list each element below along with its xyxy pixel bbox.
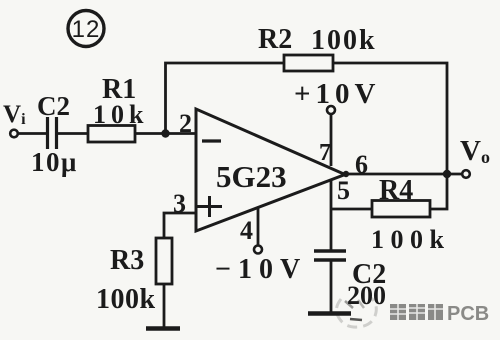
wire R2 right down to output bbox=[333, 63, 447, 174]
node output/R2/R4 junction bbox=[443, 170, 451, 178]
ground under C2 bbox=[308, 311, 351, 316]
watermark logo bbox=[336, 298, 376, 327]
svg-text:PCB: PCB bbox=[447, 303, 489, 325]
resistor R2 bbox=[284, 55, 333, 71]
wire R3 to ground bbox=[163, 284, 166, 327]
wire pin 7 bbox=[330, 114, 333, 166]
minus sign inverting input bbox=[202, 139, 221, 142]
svg-text:R3: R3 bbox=[110, 245, 144, 276]
svg-text:R4: R4 bbox=[379, 175, 413, 206]
svg-text:12: 12 bbox=[72, 16, 101, 43]
watermark text bbox=[390, 303, 489, 325]
wire C2 to R1 bbox=[58, 132, 88, 135]
wire C2 to ground bbox=[330, 260, 333, 312]
wire pin 3 to R3 bbox=[164, 213, 196, 238]
svg-text:2: 2 bbox=[179, 109, 192, 138]
svg-text:10k: 10k bbox=[93, 100, 148, 129]
capacitor C2 (200) bbox=[314, 251, 346, 260]
svg-text:C2: C2 bbox=[37, 91, 70, 121]
output terminal Vo bbox=[462, 170, 470, 178]
output wire pin 6 bbox=[345, 173, 462, 176]
svg-text:200: 200 bbox=[347, 281, 386, 310]
svg-text:5: 5 bbox=[337, 176, 350, 205]
resistor R1 bbox=[88, 126, 135, 143]
svg-text:100k: 100k bbox=[371, 225, 450, 254]
node junction R1/R2 bbox=[161, 129, 169, 137]
wire pin 4 bbox=[257, 208, 260, 246]
figure number 12 bbox=[68, 11, 104, 47]
power -10V terminal bbox=[254, 246, 262, 254]
wire Vi to C2 bbox=[18, 132, 46, 135]
svg-text:5G23: 5G23 bbox=[216, 159, 287, 194]
svg-text:+10V: +10V bbox=[294, 78, 380, 110]
wire pin 5 down bbox=[330, 179, 333, 250]
wire junction up to R2 bbox=[166, 63, 285, 134]
wire pin5 node to R4 bbox=[331, 208, 372, 211]
resistor R4 bbox=[372, 201, 430, 218]
plus sign non-inverting input bbox=[197, 196, 222, 217]
svg-text:4: 4 bbox=[240, 216, 253, 245]
svg-text:100k: 100k bbox=[311, 25, 377, 56]
svg-text:−10V: −10V bbox=[215, 254, 307, 285]
capacitor C2 (input) bbox=[48, 117, 57, 149]
svg-text:10μ: 10μ bbox=[31, 147, 78, 177]
wire R1 to op-amp pin2 bbox=[135, 132, 197, 135]
wire R4 right up to output bbox=[430, 174, 447, 209]
svg-text:R2: R2 bbox=[258, 24, 292, 55]
svg-text:7: 7 bbox=[319, 140, 331, 166]
power +10V terminal bbox=[327, 106, 335, 114]
input terminal Vi bbox=[10, 130, 18, 138]
ground under R3 bbox=[146, 326, 180, 331]
node at apex bbox=[343, 171, 349, 177]
resistor R3 bbox=[156, 238, 172, 284]
svg-text:100k: 100k bbox=[96, 284, 156, 315]
op-amp U1 5G23 bbox=[196, 109, 345, 231]
